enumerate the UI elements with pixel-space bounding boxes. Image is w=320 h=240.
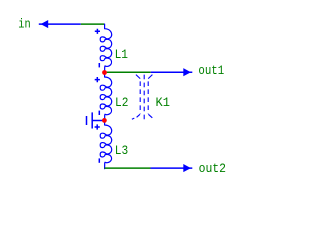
svg-text:out2: out2 (199, 162, 226, 176)
L3 plus polarity (95, 124, 100, 129)
L1 minus polarity (rotated tick) (98, 63, 100, 67)
coupling K1 (dashed core lines) (132, 75, 153, 121)
svg-text:L3: L3 (115, 143, 128, 158)
wire: in arrow stem (blue) (39, 23, 81, 25)
wire: junction1 to out1 (green) (107, 71, 151, 73)
node out1 : port arrow (183, 68, 191, 76)
wire: out1 stem (blue) (151, 71, 193, 73)
inductor L3 (100, 120, 111, 168)
inductor L1 (100, 24, 111, 72)
wire: out2 stem (blue) (151, 167, 193, 169)
svg-text:L2: L2 (115, 95, 128, 110)
svg-text:L1: L1 (115, 47, 129, 62)
wire: in to L1 top (green) (81, 23, 105, 25)
ground symbol (rotated, bars decreasing) (87, 112, 103, 128)
svg-text:K1: K1 (156, 95, 171, 110)
svg-text:out1: out1 (198, 64, 224, 78)
node out2 : port arrow (183, 164, 191, 172)
L2 minus polarity (98, 111, 100, 115)
L1 plus polarity (95, 29, 100, 34)
node junction dot 1 (102, 70, 107, 75)
L3 minus polarity (98, 158, 100, 162)
node in : port arrow (points left) (41, 20, 49, 28)
node junction dot 2 (102, 118, 107, 123)
svg-text:in: in (18, 18, 30, 32)
L2 plus polarity (95, 77, 100, 82)
wire: L3 bottom to out2 (green) (105, 167, 151, 169)
inductor L2 (100, 72, 111, 120)
